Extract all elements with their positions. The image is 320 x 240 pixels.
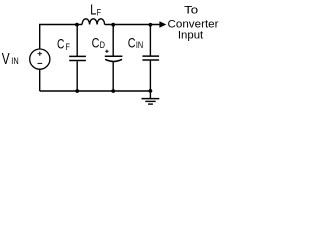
svg-text:C: C <box>57 35 64 51</box>
svg-text:Input: Input <box>178 29 203 41</box>
svg-text:To: To <box>184 5 198 17</box>
svg-text:C: C <box>128 34 136 50</box>
svg-text:V: V <box>2 51 10 68</box>
svg-text:D: D <box>100 40 105 51</box>
svg-text:L: L <box>90 2 96 19</box>
svg-text:F: F <box>66 42 71 53</box>
svg-text:IN: IN <box>11 56 19 67</box>
svg-text:C: C <box>92 34 100 50</box>
svg-text:IN: IN <box>136 40 143 51</box>
svg-text:F: F <box>97 7 102 18</box>
